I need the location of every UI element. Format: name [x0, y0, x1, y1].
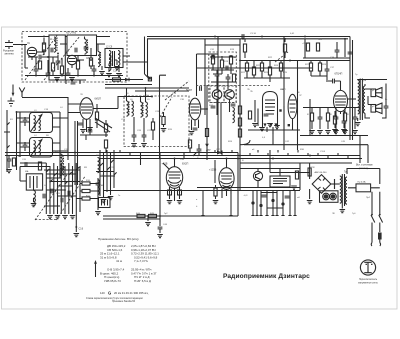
tube V5 pin arrows — [263, 123, 277, 127]
ground rc4 — [333, 131, 339, 134]
wire FM verticals — [36, 37, 119, 76]
V10 pins — [222, 189, 231, 199]
ground C16 — [74, 234, 80, 237]
long rail y152 — [5, 152, 238, 154]
capacitor C7 — [39, 55, 41, 60]
tube V5 (6Н2П tall envelope) — [263, 92, 278, 128]
ground rc6 — [352, 131, 358, 134]
svg-text:СЗ 30: СЗ 30 — [250, 33, 257, 35]
filter1 coil b — [39, 116, 41, 131]
ground p4 — [274, 126, 280, 129]
FM IF transformer box — [105, 49, 123, 68]
switch bank verticals — [46, 163, 80, 215]
audio box bottom y163 — [240, 162, 352, 164]
preamp wiring — [244, 61, 290, 83]
long rail y158 — [100, 158, 362, 160]
capacitor C36 — [264, 114, 269, 116]
ground C44 — [157, 235, 163, 238]
junction dots FM — [43, 36, 45, 38]
resistor R26 — [248, 111, 251, 119]
dipole antenna symbol — [5, 40, 22, 49]
oscillator coil L5 — [61, 154, 63, 176]
osc dashed link — [165, 81, 189, 100]
capacitor C50 on bus — [348, 52, 353, 54]
transistor T1 — [212, 90, 222, 100]
resistor R28 — [318, 63, 321, 71]
AF drops from rail — [141, 153, 239, 223]
pin boxes V9 — [168, 190, 172, 195]
resistor R23 — [260, 63, 263, 71]
diode D1 — [125, 78, 129, 82]
speaker Gr2 — [371, 103, 382, 114]
capacitor C33b — [212, 55, 214, 60]
capacitor C40 — [342, 121, 347, 123]
junction dots AF — [159, 215, 161, 217]
converter sub-box 2 — [224, 86, 236, 103]
ground rc1 — [309, 131, 315, 134]
ground V4 — [189, 132, 195, 135]
table pointer arrow — [95, 262, 97, 277]
tube V2 (FM) — [67, 55, 76, 64]
ground sw b — [108, 197, 114, 200]
wire y130 — [248, 120, 300, 130]
ground row a — [47, 216, 53, 219]
ground sw a — [101, 200, 107, 203]
lamp 1 — [323, 193, 330, 200]
transistor T3 — [253, 171, 262, 180]
fuse cartridge — [378, 233, 382, 240]
svg-text:140: 140 — [100, 291, 105, 295]
resistor R8 — [12, 158, 15, 166]
ground R15 — [161, 129, 167, 132]
Tr1 top lead to fuse — [347, 169, 380, 185]
FM unit output wire — [123, 56, 147, 62]
feedback rail y144.7 — [240, 130, 368, 163]
FM IF coil b — [118, 51, 120, 66]
ground V8a — [332, 130, 338, 133]
junction squares — [279, 109, 281, 111]
capacitor C15a — [43, 194, 45, 199]
capacitor C11 — [84, 47, 89, 49]
phono wires — [240, 163, 300, 190]
resistor R4 — [76, 61, 79, 69]
plug hooks — [371, 243, 380, 247]
tuning gang dashed link 1 — [25, 34, 58, 80]
Tr1 primary — [340, 176, 342, 203]
filter1 trimmer arrow — [31, 115, 42, 132]
FM box drain coil — [109, 56, 111, 71]
switch dots — [371, 214, 373, 216]
pin feet — [201, 215, 296, 217]
capacitor Cp2 — [285, 196, 290, 198]
Tr2 secondary winding — [363, 86, 365, 113]
junction dots IF — [151, 96, 153, 98]
converter exit caps — [210, 57, 236, 115]
plus bar — [334, 179, 336, 189]
capacitor C35a — [211, 106, 216, 108]
ground R34 — [291, 186, 297, 189]
capacitor C4 — [66, 73, 71, 75]
diode on AGC rail — [217, 151, 222, 155]
rc1 — [310, 113, 313, 121]
resistor R1 — [38, 61, 41, 69]
ground rect — [307, 201, 313, 204]
ground V3 b — [87, 128, 93, 131]
volume control parts — [137, 214, 145, 217]
tube V3 6И1П — [80, 98, 93, 120]
tube V3 anode wire — [68, 96, 118, 132]
long rail y155 — [5, 155, 360, 157]
ground Tr1 — [340, 210, 346, 213]
capacitor C49 on rail — [242, 34, 244, 39]
tuning gang dashed link 2 — [44, 36, 80, 80]
capacitor C31 — [200, 86, 202, 91]
svg-text:Приемники Автоген.: Приемники Автоген. ВЧ (мгц) — [98, 237, 139, 241]
resistor R9b — [104, 140, 107, 148]
mains switch pole 2 — [379, 192, 383, 232]
ground vol — [145, 223, 151, 226]
resistor R3 — [60, 66, 63, 74]
svg-text:СЗ-В: СЗ-В — [320, 151, 326, 153]
resistor R20b — [232, 74, 235, 82]
resistor R15 — [162, 117, 165, 125]
FM tuner dashed box — [22, 32, 127, 83]
Tr1 ground stem — [341, 206, 343, 209]
rc6 — [353, 117, 358, 119]
vertical x60 — [59, 112, 61, 178]
IF mid resistor — [151, 122, 154, 130]
svg-text:ПчЗГ 6,5 в Д: ПчЗГ 6,5 в Д — [134, 279, 151, 283]
Tr2 wiring — [358, 80, 387, 122]
ground p2 — [259, 128, 265, 131]
ground C26 — [131, 144, 137, 147]
ground V10 — [213, 201, 219, 204]
IF trimmer dashed arrow — [160, 97, 172, 117]
svg-text:Переключатель: Переключатель — [359, 278, 378, 281]
svg-text:6Х2П: 6Х2П — [182, 163, 188, 166]
ground FM 5 — [116, 74, 122, 77]
earth bar symbol — [8, 98, 15, 107]
horizontal y45 — [205, 44, 240, 46]
switch bank top wires — [20, 163, 80, 170]
resistor R33 — [214, 188, 217, 196]
svg-text:АВС-80-260: АВС-80-260 — [315, 171, 328, 174]
fuse box Пр — [356, 184, 371, 192]
tube V1 (FM) — [27, 47, 36, 56]
right mid parts: resistor R27 — [309, 63, 312, 71]
mains switch pole 1 — [371, 192, 375, 243]
svg-text:6Н2П: 6Н2П — [280, 89, 286, 91]
resistor R5 — [89, 58, 92, 66]
svg-text:41 м: 41 м — [116, 259, 122, 263]
wire antenna to stage — [22, 45, 28, 69]
ground rc5 — [342, 131, 348, 134]
svg-text:6И1П: 6И1П — [95, 98, 102, 101]
speaker wires — [365, 84, 386, 119]
capacitor C39 — [333, 79, 335, 84]
rc4 — [334, 117, 339, 119]
wire FM bus top — [28, 36, 110, 38]
bridge to transformer wire — [331, 183, 340, 185]
ground C20 — [6, 170, 12, 173]
IF coil pair K1 b — [132, 101, 134, 116]
converter wires — [211, 55, 236, 89]
switch column coil b — [98, 180, 100, 195]
FM feed line — [105, 79, 143, 81]
vertical bus pair x284 — [284, 37, 298, 151]
ground row d — [70, 216, 76, 219]
phase splitter dashed — [275, 52, 288, 62]
supply feed wire — [270, 150, 310, 173]
resistor R9a — [104, 124, 107, 132]
pot arrow V — [205, 144, 209, 148]
ground V9b — [177, 201, 183, 204]
svg-text:Приемник Звезда-54: Приемник Звезда-54 — [112, 300, 136, 303]
resistor R31 — [333, 116, 336, 124]
V10 top lead — [226, 159, 228, 168]
capacitor C44 — [158, 227, 163, 229]
FM IF coil a — [109, 51, 111, 66]
svg-text:+250В: +250В — [302, 43, 309, 45]
loop antenna box — [99, 198, 111, 208]
resistor R20 — [229, 56, 232, 64]
rail drop right — [350, 37, 353, 141]
band switch dashed bar — [35, 219, 57, 221]
K1 core — [128, 102, 130, 117]
arrow to ground — [12, 85, 14, 96]
contact ticks — [100, 160, 117, 175]
resistor R36 — [308, 168, 311, 176]
resistor R16 — [205, 129, 208, 137]
resistor R30 — [316, 43, 319, 51]
svg-text:L2 С9: L2 С9 — [106, 47, 113, 49]
AF line y219 — [103, 218, 160, 220]
ground rc2 — [317, 131, 323, 134]
converter dashed box — [209, 52, 237, 103]
preamp parts: resistor R21 — [245, 63, 248, 71]
Tr2 primary winding — [358, 80, 360, 114]
stage1 shield box — [49, 35, 65, 80]
IF coil pair K2 b — [146, 102, 148, 117]
capacitor C1 — [34, 69, 39, 71]
svg-text:Д7Ж: Д7Ж — [310, 167, 315, 169]
capacitor C35b — [231, 104, 236, 106]
ground p1 — [252, 124, 258, 127]
speaker Gr1 — [371, 88, 382, 99]
resistor R6 — [42, 43, 45, 51]
ground C27 — [141, 144, 147, 147]
switch bank extra wires — [46, 174, 80, 196]
tube V4 6К4П — [189, 98, 200, 120]
vertical x360 — [359, 136, 361, 163]
bridge rectifier АВС-80-260 — [312, 175, 331, 194]
svg-text:G: G — [108, 291, 111, 296]
switch bank mid wires — [44, 178, 73, 206]
capacitor C6 — [75, 48, 77, 53]
svg-text:С14: С14 — [113, 71, 118, 73]
capacitor C18 — [88, 130, 93, 132]
selector I-bar — [367, 262, 369, 272]
capacitor C33 — [215, 74, 220, 76]
rail stubs — [120, 150, 348, 159]
capacitor C21b — [23, 145, 28, 147]
Tr1 secondary — [345, 177, 347, 204]
rail dots — [214, 36, 216, 38]
tube V8 pins — [335, 111, 344, 116]
vertical bus x218 — [218, 37, 221, 155]
rail y135 — [300, 135, 368, 137]
IF coil pair K2 a — [141, 102, 143, 117]
ground Tr2 — [355, 123, 361, 126]
resistor R25 — [279, 63, 282, 71]
band switch dashed link 2 — [56, 176, 85, 220]
svg-text:МА: МА — [25, 170, 29, 173]
capacitor C8 — [71, 82, 76, 84]
transistor T2 — [225, 90, 235, 100]
horizontal y68 — [197, 67, 313, 69]
capacitor C21a — [23, 120, 28, 122]
rc row rail — [303, 107, 360, 109]
tube V10 — [219, 168, 234, 190]
rc5 — [343, 113, 346, 121]
junction C16 — [75, 215, 77, 232]
filter2 coil b — [39, 141, 41, 156]
B+ rail double top — [147, 37, 350, 39]
converter sub-box 1 — [210, 86, 224, 103]
svg-text:Пр 0,5А: Пр 0,5А — [358, 181, 366, 184]
ground FM 4 — [106, 74, 112, 77]
resistor R12 — [82, 197, 90, 200]
vertical x68 — [67, 97, 69, 160]
resistor R24 — [268, 67, 271, 75]
ground row c — [62, 216, 68, 219]
capacitor C32 — [197, 149, 202, 151]
resistor R22 — [252, 67, 255, 75]
resistor R14a — [38, 162, 41, 170]
svg-text:напряжения сети: напряжения сети — [358, 281, 379, 284]
vertical bus x205 — [204, 39, 206, 115]
stage2 shield box — [67, 35, 97, 56]
antenna coil L7 — [34, 191, 36, 206]
capacitor C33c — [226, 66, 228, 71]
svg-text:31 м 9,5÷9,8: 31 м 9,5÷9,8 — [100, 255, 117, 259]
switch bank contact ticks — [46, 167, 79, 184]
resistor R7 — [95, 112, 98, 120]
IF out wires — [201, 85, 207, 160]
svg-text:20 2а 31 49 41 300 455 к: 20 2а 31 49 41 300 455 кгц — [114, 291, 149, 295]
vertical x310 right — [309, 99, 311, 136]
IF coil pair K1 a — [127, 101, 129, 116]
ground FM 1 — [54, 78, 60, 81]
svg-text:6П14П: 6П14П — [335, 73, 343, 76]
audio box bottom y187 — [197, 187, 300, 189]
pin cluster link — [261, 193, 283, 209]
svg-text:Вкл. в сетевую: Вкл. в сетевую — [356, 165, 373, 167]
tube V8 6П14П — [334, 90, 348, 111]
pin mid contacts — [252, 202, 254, 204]
resistor R40 drop — [244, 39, 246, 42]
IF wires top — [105, 88, 189, 102]
filter2 trimmer arrow — [31, 140, 42, 156]
svg-text:Радиоприемник Дзинтарс: Радиоприемник Дзинтарс — [223, 273, 310, 280]
switch column wires — [96, 172, 115, 177]
vertical pair x75 — [75, 121, 78, 185]
capacitor C37 — [325, 69, 330, 71]
filter interconnect wires — [17, 118, 69, 151]
ground row b — [55, 216, 61, 219]
detector contact tick — [184, 153, 196, 159]
filter2 coil a — [34, 141, 36, 156]
ground V8b — [341, 130, 347, 133]
V9 top lead — [163, 159, 175, 170]
capacitor C15b — [61, 198, 63, 203]
aerial feed line — [22, 97, 68, 99]
rectifier feed vertical — [309, 163, 311, 199]
Y antenna — [19, 88, 25, 98]
power transformer Tr1 core — [342, 174, 344, 206]
vertical bus x240 — [239, 39, 241, 190]
capacitor C26 — [132, 135, 137, 137]
capacitor Cp1 — [262, 195, 267, 197]
tube V3 support parts — [80, 126, 108, 140]
switch column coil a — [98, 158, 100, 173]
capacitor C38 — [335, 50, 340, 52]
pickup block box — [270, 176, 290, 187]
resistor R13 — [113, 78, 121, 81]
resistor R19 — [220, 60, 223, 68]
capacitor C5 — [92, 69, 97, 71]
AF line y216 — [103, 215, 238, 217]
wire FM bottom — [25, 75, 123, 77]
capacitor C15c — [51, 189, 53, 194]
lamp box — [320, 191, 339, 203]
band filter stage 2 frame — [30, 138, 53, 158]
capacitor C41 — [384, 106, 389, 108]
tube V6 (narrow) — [288, 94, 297, 118]
detector column coil — [233, 108, 235, 123]
capacitor C20 — [7, 159, 12, 161]
capacitor C3 — [56, 61, 61, 63]
pin drops — [203, 160, 295, 216]
AGC dashed line — [196, 85, 270, 87]
detector column parts — [238, 106, 241, 114]
stage2 coil — [85, 39, 87, 54]
svg-text:антенна: антенна — [5, 53, 15, 56]
resistor R34 — [295, 171, 298, 179]
resistor R41 drop — [284, 39, 286, 42]
ground FM 2 — [69, 78, 75, 81]
resistor R2 — [51, 63, 54, 71]
FM below-box parts — [60, 80, 86, 84]
resistor R10 — [82, 182, 90, 185]
contact squares — [49, 181, 51, 183]
rail dots — [206, 152, 208, 154]
K2 core — [142, 103, 144, 118]
capacitor C30 — [193, 128, 198, 130]
IF dashed box — [124, 96, 189, 147]
horizontal y60 — [240, 60, 350, 62]
filter1 coil a — [34, 116, 36, 131]
capacitor C27 — [142, 135, 147, 137]
svg-text:R2 С4 R3: R2 С4 R3 — [66, 33, 77, 35]
switch column mid verticals — [100, 150, 114, 198]
tube V9 6Х2П — [166, 167, 182, 189]
capacitor C2 — [46, 73, 51, 75]
lamp 2 — [330, 193, 337, 200]
resistor R29 — [306, 43, 309, 51]
left trimmer column — [19, 112, 21, 157]
capacitor C34 — [226, 77, 231, 79]
